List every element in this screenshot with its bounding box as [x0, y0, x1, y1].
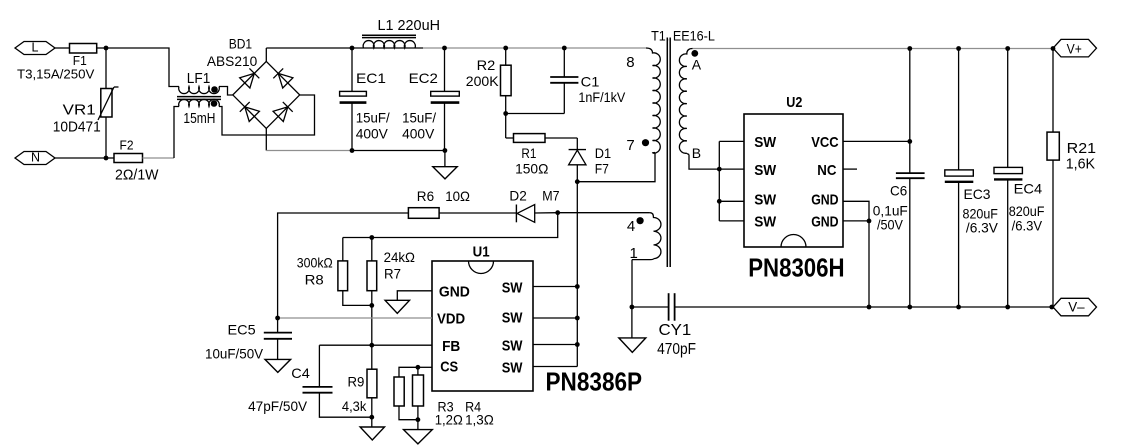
- svg-text:V–: V–: [1068, 299, 1085, 315]
- svg-text:EC4: EC4: [1014, 181, 1043, 197]
- node EC2 top: [442, 46, 447, 51]
- resistor R21: [1047, 132, 1096, 172]
- svg-text:R2: R2: [477, 57, 496, 73]
- svg-text:EC1: EC1: [356, 70, 386, 86]
- svg-text:SW: SW: [502, 309, 524, 326]
- wire node down to divider rail: [343, 213, 558, 238]
- svg-text:FB: FB: [442, 338, 460, 355]
- wire R7 bottom: [371, 291, 373, 306]
- wire LF1 bottom to BD1 right: [219, 95, 315, 135]
- inductor L1: [362, 17, 440, 48]
- svg-text:ABS210: ABS210: [207, 53, 258, 69]
- svg-text:M7: M7: [542, 188, 559, 204]
- svg-text:A: A: [692, 56, 702, 72]
- wire VCC to C6: [843, 140, 910, 142]
- ground below R3 R4: [404, 430, 433, 444]
- capacitor C1: [550, 48, 626, 114]
- node V- rail x958: [956, 305, 961, 310]
- svg-text:10D471: 10D471: [53, 119, 101, 136]
- wire EC2 to ground: [444, 151, 446, 167]
- svg-text:VR1: VR1: [63, 101, 96, 118]
- svg-text:10Ω: 10Ω: [445, 188, 470, 204]
- terminal L: [15, 41, 55, 55]
- resistor R4: [413, 375, 494, 427]
- svg-text:10uF/50V: 10uF/50V: [205, 346, 264, 362]
- svg-text:VDD: VDD: [437, 311, 465, 328]
- wire D1 node to T1 pin7: [577, 153, 655, 182]
- wire VR1 to node N: [105, 117, 107, 158]
- node R3-R4 bottom: [416, 417, 421, 422]
- diode D1: [569, 145, 612, 182]
- wire EC1 top: [351, 48, 353, 91]
- choke LF1: [177, 70, 221, 127]
- wire R3 top: [399, 367, 418, 377]
- wire node to T1 pin4: [558, 212, 650, 214]
- wire node to LF1 top: [106, 48, 179, 87]
- svg-text:400V: 400V: [356, 125, 389, 141]
- svg-text:2Ω/1W: 2Ω/1W: [115, 167, 159, 184]
- ground below EC5: [265, 359, 291, 372]
- svg-text:U2: U2: [786, 94, 802, 111]
- op-amp U2 PN8306H: [744, 94, 845, 283]
- wire EC4 top: [1007, 49, 1009, 168]
- capacitor EC5: [205, 318, 292, 362]
- fuse F2: [114, 138, 159, 184]
- capacitor EC3: [945, 170, 999, 307]
- svg-text:PN8386P: PN8386P: [546, 367, 643, 397]
- svg-text:1,2Ω: 1,2Ω: [435, 411, 463, 427]
- svg-text:1nF/1kV: 1nF/1kV: [578, 89, 625, 105]
- svg-text:SW: SW: [502, 338, 524, 355]
- node R2 top: [503, 46, 508, 51]
- wire N to node: [55, 157, 106, 159]
- wire R1 to D1: [545, 138, 577, 150]
- svg-text:400V: 400V: [402, 125, 435, 141]
- svg-text:T3,15A/250V: T3,15A/250V: [17, 66, 95, 81]
- node D2 anode: [555, 210, 560, 215]
- wire R4 top: [417, 367, 419, 375]
- svg-text:470pF: 470pF: [657, 341, 696, 358]
- svg-text:B: B: [692, 145, 701, 161]
- svg-text:C1: C1: [581, 74, 600, 90]
- capacitor C6: [873, 173, 925, 307]
- SW bus U2: [717, 141, 744, 221]
- wire R8 bottom to node: [343, 291, 372, 306]
- wire VDD corner to R6: [278, 213, 409, 318]
- capacitor EC1: [340, 70, 390, 141]
- svg-text:4,3k: 4,3k: [342, 398, 367, 414]
- svg-text:T1, EE16-L: T1, EE16-L: [651, 28, 715, 43]
- node N-F2: [104, 156, 109, 161]
- DC+ rail: [266, 47, 646, 49]
- svg-text:SW: SW: [754, 192, 777, 209]
- terminal V-: [1053, 298, 1097, 316]
- wire node to F2: [106, 157, 114, 159]
- node V- rail x909: [907, 305, 912, 310]
- V- rail left: [632, 306, 669, 308]
- svg-text:SW: SW: [502, 360, 524, 377]
- ground below EC2: [433, 167, 457, 179]
- svg-text:EC3: EC3: [964, 186, 991, 202]
- node V- rail x869: [867, 305, 872, 310]
- svg-text:V+: V+: [1067, 41, 1082, 57]
- wire EC1 bottom: [351, 103, 353, 151]
- node EC1 top: [350, 46, 355, 51]
- wire R21 top: [1052, 49, 1054, 133]
- wire primary ground: [631, 307, 633, 338]
- svg-text:4: 4: [627, 218, 635, 235]
- svg-text:SW: SW: [502, 280, 524, 297]
- wire EC2 top: [444, 48, 446, 91]
- svg-text:R6: R6: [417, 188, 434, 204]
- svg-text:SW: SW: [754, 134, 777, 151]
- svg-text:200K: 200K: [466, 73, 499, 89]
- wire C6 top: [909, 49, 911, 174]
- svg-text:R1: R1: [521, 145, 536, 161]
- svg-text:CS: CS: [440, 359, 458, 376]
- wire EC2 bottom: [444, 103, 446, 151]
- capacitor EC2: [402, 70, 459, 141]
- wire CS pin to R3 R4: [418, 366, 432, 368]
- wire R21 bottom: [1052, 160, 1054, 307]
- node R9-C4 bottom: [369, 415, 374, 420]
- bridge rectifier BD1: [207, 35, 300, 128]
- wire F2 to LF1 bottom: [143, 107, 180, 159]
- svg-text:150Ω: 150Ω: [515, 160, 548, 176]
- node CS-R4: [416, 365, 421, 370]
- svg-text:N: N: [31, 151, 40, 165]
- node R21 top rail: [1051, 46, 1056, 51]
- wire R9 top: [371, 345, 373, 369]
- node CY1 left: [630, 305, 635, 310]
- svg-text:BD1: BD1: [229, 35, 253, 51]
- svg-text:R9: R9: [348, 374, 365, 390]
- svg-text:NC: NC: [817, 162, 836, 179]
- ground primary side: [619, 338, 646, 353]
- svg-text:15uF/: 15uF/: [402, 109, 436, 125]
- svg-text:D1: D1: [595, 145, 612, 161]
- DC- rail: [266, 150, 445, 152]
- svg-text:7: 7: [626, 137, 634, 154]
- resistor R8: [297, 255, 348, 291]
- svg-text:GND: GND: [439, 284, 470, 301]
- wire F1 to node: [97, 47, 106, 49]
- op-amp U1 PN8386P: [432, 244, 642, 397]
- terminal N: [15, 151, 55, 165]
- resistor R3: [394, 377, 463, 427]
- node L-VR1: [104, 46, 109, 51]
- resistor R2: [466, 57, 511, 96]
- resistor R9: [342, 369, 377, 414]
- wire R2 top: [505, 48, 507, 65]
- svg-text:47pF/50V: 47pF/50V: [248, 398, 308, 414]
- svg-text:GND: GND: [811, 192, 839, 209]
- svg-text:EC2: EC2: [409, 70, 439, 86]
- node V- rail x1051: [1049, 305, 1054, 310]
- svg-text:/6.3V: /6.3V: [966, 220, 999, 236]
- node R2-C1: [503, 111, 508, 116]
- svg-text:L1 220uH: L1 220uH: [378, 17, 441, 34]
- wire node down to VR1: [105, 48, 107, 89]
- svg-text:R8: R8: [305, 271, 324, 287]
- svg-text:R7: R7: [384, 265, 401, 281]
- wire secondary B to U2 SW: [689, 155, 719, 170]
- wire T1 pin1 down: [631, 260, 633, 307]
- svg-text:EC5: EC5: [228, 321, 256, 337]
- svg-text:24kΩ: 24kΩ: [384, 249, 415, 265]
- wire R9 bottom: [371, 398, 373, 427]
- svg-text:1: 1: [630, 245, 638, 262]
- node V- rail x1007: [1005, 305, 1010, 310]
- ground below U1 GND: [385, 300, 409, 313]
- node FB-R9: [369, 343, 374, 348]
- svg-text:/6.3V: /6.3V: [1012, 217, 1043, 233]
- svg-text:D2: D2: [509, 188, 527, 204]
- node EC2 bottom: [443, 148, 448, 153]
- node GND pins: [867, 219, 872, 224]
- wire NC stub: [843, 168, 857, 170]
- wire LF1 top to BD1 left: [219, 87, 233, 96]
- svg-text:C6: C6: [890, 182, 907, 198]
- wire node to C1 bottom: [506, 113, 565, 115]
- wire R4 bottom: [417, 406, 419, 430]
- wire divider node down to FB: [371, 305, 373, 345]
- svg-text:CY1: CY1: [659, 322, 692, 339]
- VDD line: [278, 317, 432, 319]
- svg-text:GND: GND: [811, 214, 839, 231]
- terminal V+: [1053, 39, 1097, 57]
- svg-text:C4: C4: [291, 365, 310, 381]
- wire BD1 top to DC+ rail: [265, 48, 267, 61]
- wire R2 node down to R1: [506, 114, 514, 139]
- FB line: [319, 344, 432, 346]
- wire R8 top: [342, 238, 344, 261]
- resistor R6: [408, 188, 470, 218]
- capacitor EC4: [994, 167, 1045, 307]
- varistor VR1: [53, 87, 119, 136]
- svg-text:F2: F2: [120, 138, 134, 153]
- svg-text:F7: F7: [595, 161, 609, 177]
- svg-text:LF1: LF1: [187, 70, 211, 87]
- node C1 top: [562, 46, 567, 51]
- node R7 top: [369, 235, 374, 240]
- node D1 anode: [575, 179, 580, 184]
- resistor R7: [367, 249, 415, 291]
- wire R7 top: [371, 238, 373, 261]
- diode D2: [509, 188, 559, 223]
- svg-text:1,6K: 1,6K: [1066, 156, 1095, 173]
- wire U1 GND pin: [397, 291, 432, 301]
- svg-text:U1: U1: [473, 244, 490, 261]
- wire GND pins to V- rail: [843, 201, 869, 307]
- svg-text:/50V: /50V: [877, 217, 904, 233]
- node EC3 top rail: [956, 46, 961, 51]
- wire D2 to node: [535, 212, 558, 214]
- wire R6 to D2: [439, 212, 516, 214]
- svg-text:300kΩ: 300kΩ: [297, 255, 333, 271]
- node VCC-C6: [907, 139, 912, 144]
- svg-text:15uF/: 15uF/: [356, 109, 390, 125]
- transformer T1: [626, 28, 715, 267]
- wire EC3 top: [958, 49, 960, 170]
- ground below R9: [360, 427, 384, 440]
- resistor R1: [514, 134, 549, 177]
- svg-text:1,3Ω: 1,3Ω: [465, 411, 494, 427]
- capacitor C4: [248, 345, 372, 417]
- wire R2 bottom: [505, 96, 507, 114]
- svg-text:SW: SW: [754, 214, 777, 231]
- wire L to F1: [55, 47, 70, 49]
- svg-text:15mH: 15mH: [183, 110, 215, 127]
- node EC5 on VDD: [275, 316, 280, 321]
- svg-text:SW: SW: [754, 162, 777, 179]
- V- rail: [675, 306, 1053, 308]
- fuse F1: [17, 44, 97, 82]
- SW bus U1: [533, 182, 580, 367]
- svg-text:820uF: 820uF: [1009, 203, 1045, 219]
- node R7-R8 bottom: [369, 303, 374, 308]
- node C6 top rail: [907, 46, 912, 51]
- svg-text:VCC: VCC: [811, 134, 839, 151]
- svg-text:PN8306H: PN8306H: [748, 253, 844, 283]
- svg-text:L: L: [32, 41, 39, 55]
- wire R3 bottom: [399, 406, 418, 420]
- svg-text:8: 8: [626, 54, 634, 71]
- capacitor CY1: [657, 293, 696, 358]
- V+ rail: [693, 48, 1054, 50]
- wire BD1 bottom to DC- rail: [265, 128, 267, 150]
- node EC4 top rail: [1005, 46, 1010, 51]
- node EC1 bottom: [350, 148, 355, 153]
